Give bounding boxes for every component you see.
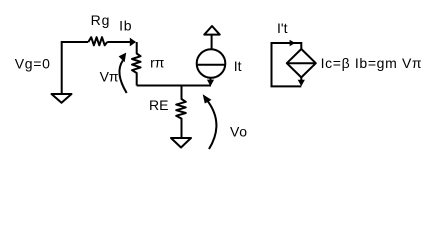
svg-text:Rg: Rg <box>91 12 111 28</box>
wire Vg node: horizontal top-left and vertical down <box>62 42 88 94</box>
dependent current source Ic (diamond with chord) <box>287 49 316 86</box>
voltage arrow Vπ (arc with arrowhead) <box>119 53 127 93</box>
resistor rpi (vertical, with leads from node B to bottom rail corner) <box>132 42 141 86</box>
ground GND1 (left, below Vg) <box>52 94 72 103</box>
voltage arrow Vo (arc with arrowhead) <box>203 94 217 149</box>
resistor Rg <box>88 37 107 45</box>
svg-text:Ic=β Ib=gm Vπ: Ic=β Ib=gm Vπ <box>321 55 423 71</box>
resistor RE (vertical) <box>176 87 186 138</box>
svg-text:RE: RE <box>149 97 168 113</box>
svg-text:Vπ: Vπ <box>100 68 119 84</box>
current arrow Ib <box>130 38 136 47</box>
ground GND2 (below RE) <box>171 138 191 148</box>
svg-text:I't: I't <box>277 20 288 36</box>
wire loop for I't around dependent source <box>272 43 302 86</box>
svg-text:Ib: Ib <box>119 18 132 34</box>
svg-text:It: It <box>234 58 242 74</box>
current source It (circle with chord, up arrow on top, down arrow to rail) <box>197 26 226 86</box>
svg-text:Vo: Vo <box>230 124 248 140</box>
current arrow I't (on top wire of loop) <box>290 40 296 46</box>
wire Rg to node B <box>107 41 135 43</box>
svg-text:rπ: rπ <box>150 54 165 70</box>
wire bottom rail from rpi to It <box>137 85 211 87</box>
svg-text:Vg=0: Vg=0 <box>15 56 51 72</box>
